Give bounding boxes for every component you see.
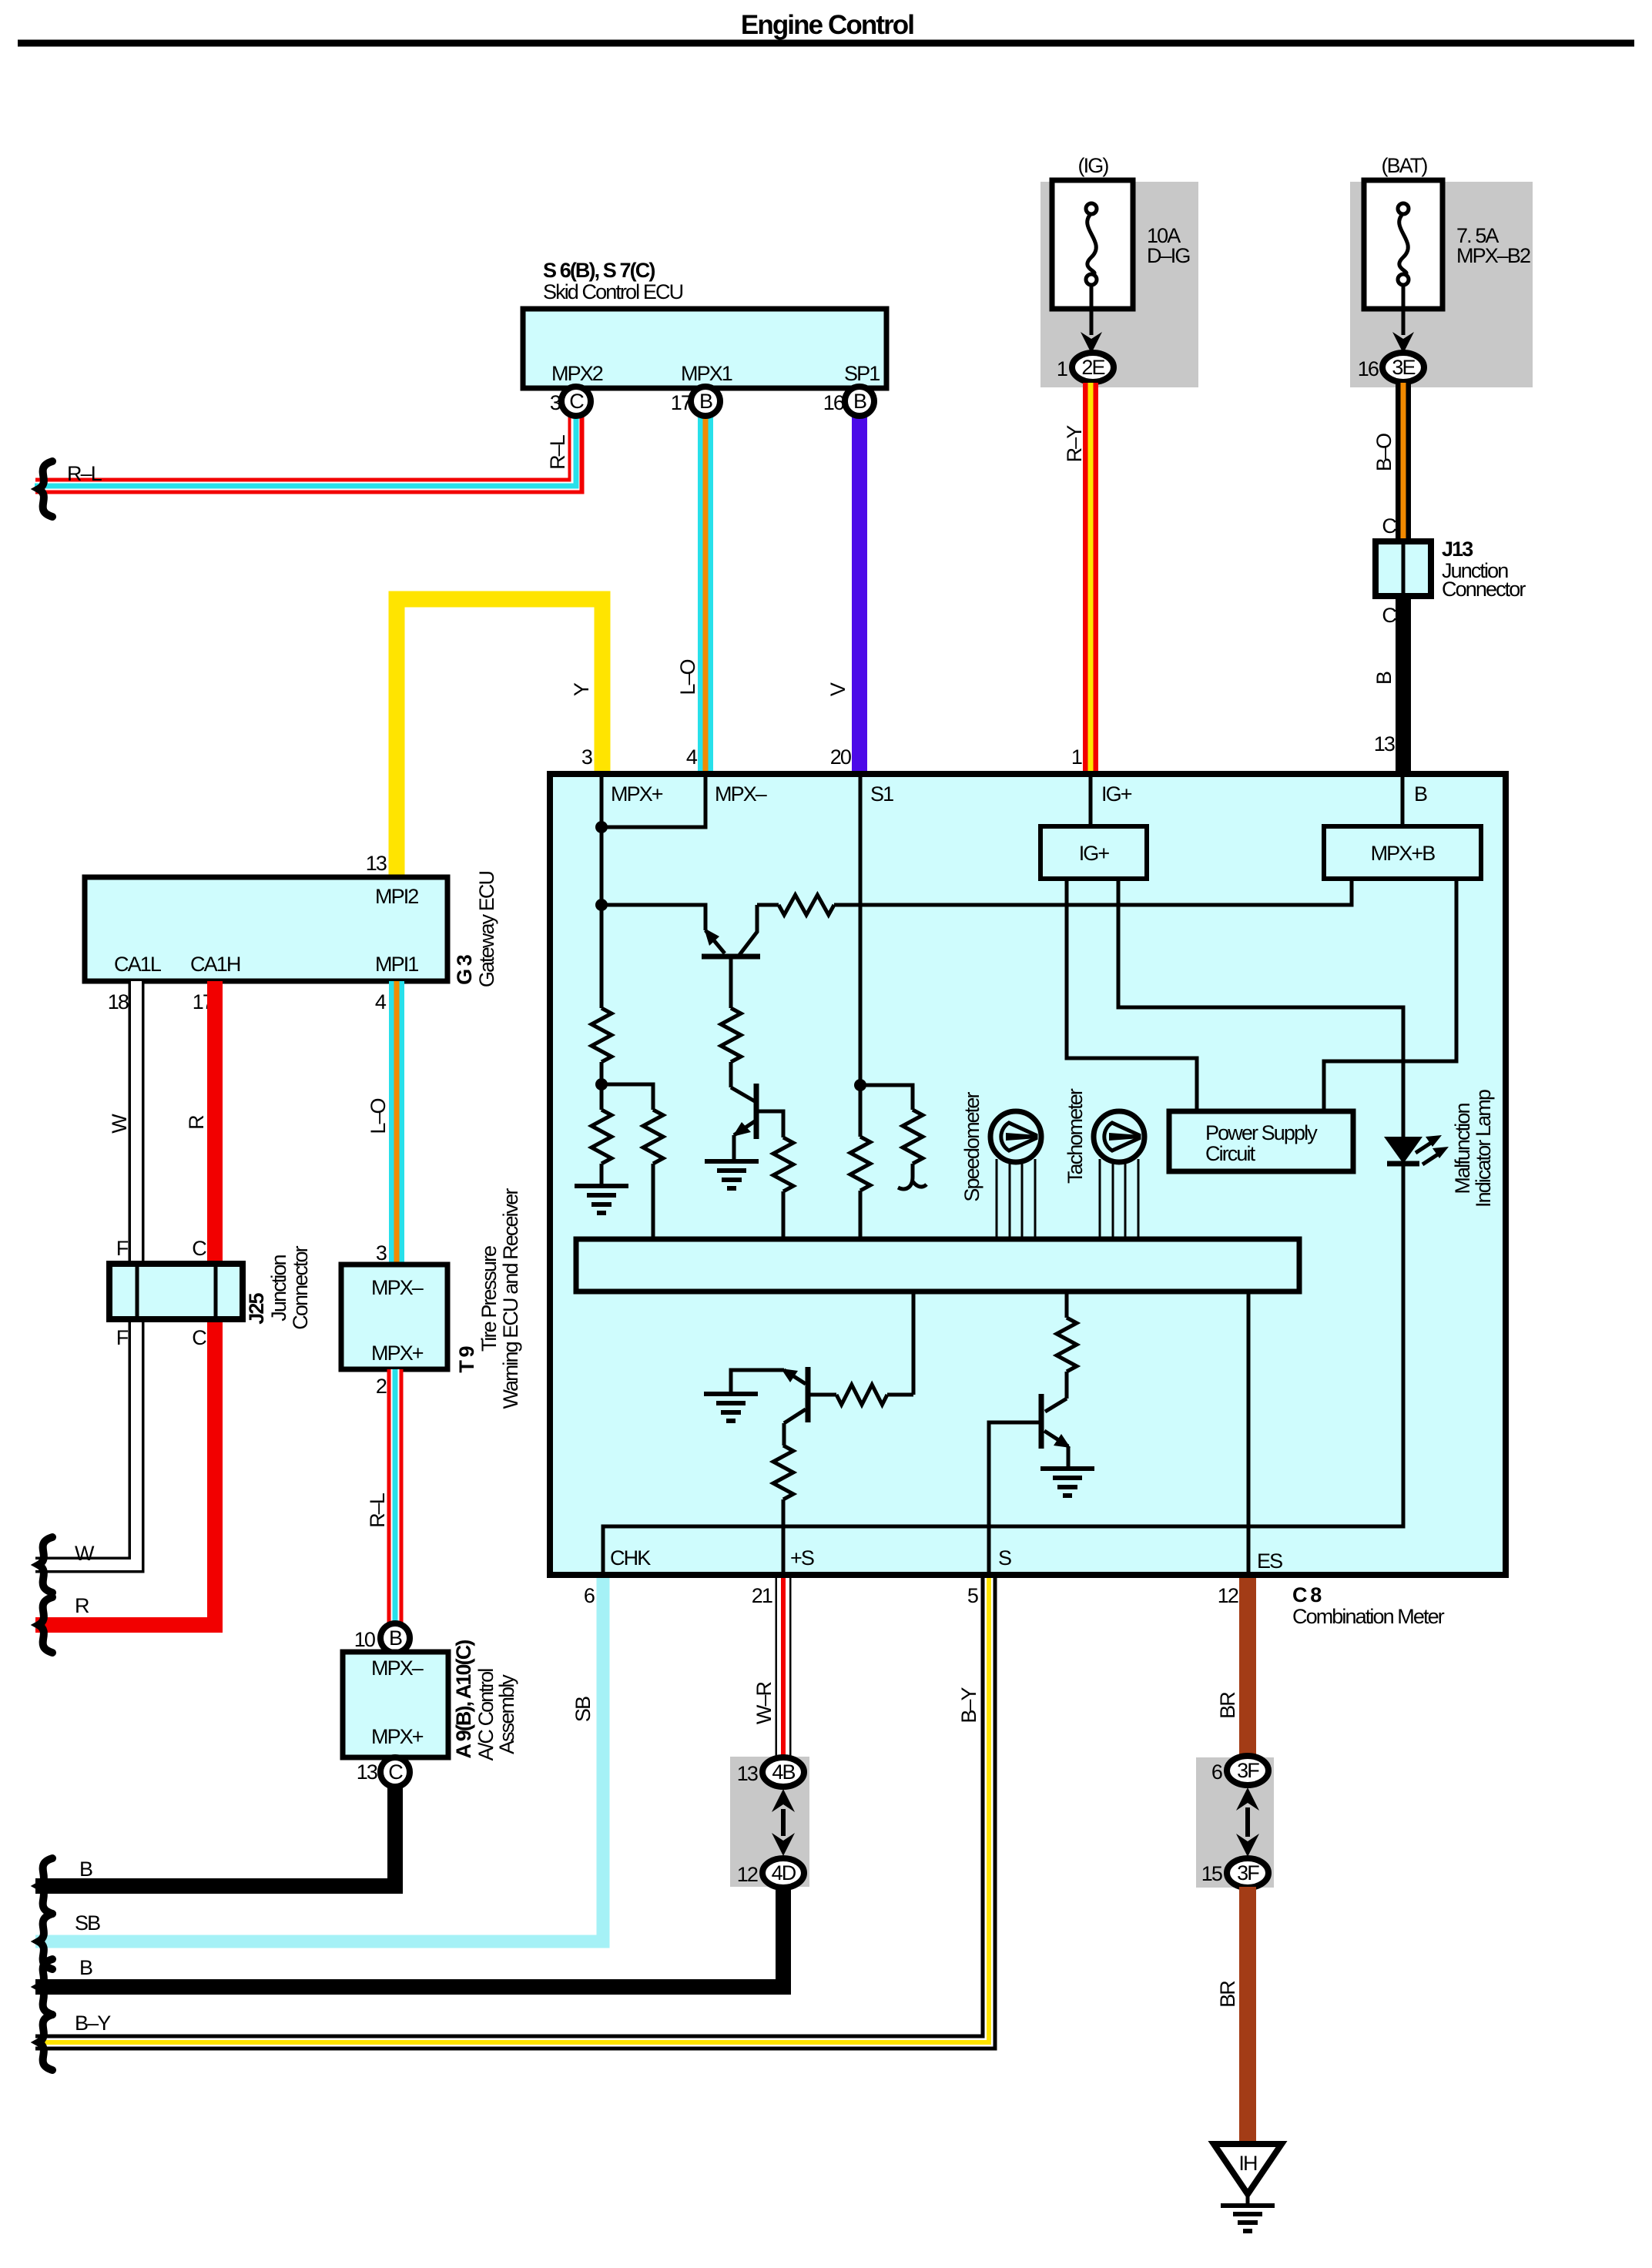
Power Supply Circuit box [1169,1111,1353,1171]
svg-text:R: R [185,1115,208,1130]
Q4 feed from bus [1065,1291,1069,1318]
wire BR from ES to 3F [1239,1578,1256,1759]
wire MPX- internal to junction [601,777,705,827]
oval 4D [762,1858,804,1888]
oval 3F bottom [1227,1858,1268,1888]
wire Y gateway MPI2 to pin3 [397,599,602,877]
svg-text:Junction: Junction [267,1255,290,1321]
header rule [18,40,1634,47]
svg-text:15: 15 [1201,1862,1222,1885]
hook terminator under R8 [898,1164,927,1189]
double arrow 3F-3F [1245,1807,1250,1837]
terminal circle B pin17 [691,387,720,416]
svg-text:C: C [1382,604,1396,627]
ground G1 [575,1184,628,1188]
resistor R4 collector line [757,903,779,907]
svg-text:R: R [75,1594,89,1617]
ground G4 [1040,1466,1094,1471]
svg-text:13: 13 [737,1762,758,1785]
svg-text:R–L: R–L [67,462,102,485]
brace cut R-L [39,461,52,517]
node dot MPX+ lower [595,1078,608,1090]
transistor Q3 collector [784,1409,806,1423]
wire B-Y from S pin to cut [35,1578,989,2042]
svg-text:B: B [389,1626,402,1650]
svg-text:4D: 4D [772,1861,796,1884]
svg-text:B–Y: B–Y [75,2012,111,2035]
ground IH bars [1246,2194,1250,2206]
node dot MPX+ branch [595,899,608,911]
node dot MPX+/MPX- [595,821,608,833]
svg-text:T 9: T 9 [455,1345,478,1372]
svg-text:C: C [1382,514,1396,538]
svg-text:16: 16 [823,391,844,414]
svg-text:W: W [75,1542,95,1565]
svg-text:3: 3 [376,1241,387,1265]
arrow to connector 3E [1402,285,1406,335]
svg-text:Malfunction: Malfunction [1451,1104,1474,1194]
resistor R5 [721,1008,741,1062]
transistor Q4 base bar [1039,1394,1044,1449]
connector oval 2E [1072,353,1114,382]
svg-text:Skid Control ECU: Skid Control ECU [543,280,683,303]
svg-text:4B: 4B [772,1760,795,1784]
svg-text:21: 21 [752,1584,772,1607]
svg-text:Warning ECU and Receiver: Warning ECU and Receiver [499,1188,522,1409]
svg-text:L–O: L–O [676,659,699,695]
A/C Control Assembly box [343,1652,448,1757]
svg-text:IG+: IG+ [1101,782,1132,806]
Tire Pressure ECU box T9 [341,1265,447,1369]
svg-text:Y: Y [570,682,593,696]
wire S1 internal vertical [859,777,863,1137]
svg-text:3E: 3E [1392,356,1415,379]
svg-text:MPX–: MPX– [715,782,767,806]
fuse D-IG element [1087,213,1097,275]
svg-text:F: F [116,1326,129,1349]
wire to Q1 emitter [601,905,705,930]
svg-text:B: B [79,1956,92,1979]
wire IG+ left leg to power supply [1067,879,1197,1111]
IG+ internal wire [1089,777,1093,826]
svg-text:C: C [388,1760,403,1784]
svg-text:6: 6 [1211,1760,1222,1784]
node dot S1 [854,1079,866,1091]
transistor Q1 collector [739,905,757,955]
resistor R6 [773,1137,793,1191]
wire Q1 base down [729,958,733,1008]
svg-text:SP1: SP1 [844,362,880,385]
ground G3 [704,1392,758,1396]
svg-text:J25: J25 [245,1292,268,1324]
svg-text:R–L: R–L [366,1492,389,1528]
wire MPX+ internal vertical [600,777,604,1008]
transistor Q4 collector [1045,1399,1067,1412]
svg-text:S 6(B), S 7(C): S 6(B), S 7(C) [543,259,655,282]
svg-text:S1: S1 [870,782,893,806]
wire R-L from T9 to A/C assembly [387,1369,404,1623]
svg-text:20: 20 [830,745,851,769]
svg-text:A/C Control: A/C Control [474,1669,498,1761]
svg-text:3F: 3F [1237,1759,1259,1782]
fuse MPX-B2 element [1399,213,1409,275]
svg-text:2E: 2E [1081,356,1104,379]
svg-text:V: V [826,682,849,696]
svg-text:CHK: CHK [610,1546,651,1570]
wire B from A/C to cut [35,1787,395,1886]
svg-text:MPX–: MPX– [371,1657,424,1680]
svg-text:Assembly: Assembly [495,1674,518,1754]
resistor R8 [903,1110,923,1164]
transistor Q4 emitter [1044,1431,1068,1446]
svg-text:F: F [116,1237,129,1260]
transistor Q1 emitter [705,930,725,953]
fuse block MPX-B2 gray background [1350,182,1533,387]
svg-text:B: B [1372,672,1396,685]
oval 4B [762,1757,804,1787]
Gateway ECU box [85,877,447,981]
svg-text:SB: SB [571,1697,595,1722]
wire R-L from cut to MPX2 [35,416,576,486]
svg-text:6: 6 [584,1584,595,1607]
svg-text:3F: 3F [1237,1861,1259,1884]
svg-text:Power Supply: Power Supply [1205,1121,1318,1144]
svg-text:4: 4 [375,990,387,1013]
Skid Control ECU box [523,309,886,388]
terminal circle B pin10 [380,1623,410,1653]
svg-text:C: C [192,1237,206,1260]
svg-text:C: C [192,1326,206,1349]
svg-text:Engine Control: Engine Control [741,10,913,40]
LED arrows [1416,1140,1436,1153]
ground IH triangle [1214,2144,1282,2194]
resistor R3 to ground [600,1084,604,1110]
svg-text:4: 4 [686,745,698,769]
svg-text:D–IG: D–IG [1147,244,1189,267]
ground G2 [705,1159,759,1164]
svg-text:MPX–: MPX– [371,1276,424,1299]
wire B from J13 to pin13 [1396,596,1411,774]
svg-text:IG+: IG+ [1079,842,1110,865]
LED malfunction indicator lamp [1384,1137,1422,1164]
fuse MPX-B2 body [1364,180,1443,309]
svg-text:A 9(B), A10(C): A 9(B), A10(C) [452,1640,475,1759]
wire W-R from +S to 4B [776,1578,792,1759]
svg-text:R–L: R–L [546,434,569,470]
transistor Q2 emitter [734,1121,755,1135]
svg-text:MPX+: MPX+ [611,782,663,806]
resistor R2 branch to bus [601,1084,653,1110]
transistor Q1 base bar [702,954,760,960]
svg-text:B: B [1414,782,1427,806]
resistor R9 [887,1393,913,1397]
wire W from CA1L to cut [35,981,136,1565]
MPX+B sub box [1324,826,1481,879]
svg-text:CA1L: CA1L [114,953,162,976]
bus bar [576,1239,1299,1291]
wire SB from CHK to cut [35,1578,603,1941]
wire V SP1 to pin20 [852,416,867,774]
svg-text:(IG): (IG) [1078,154,1109,177]
speedometer gauge [990,1111,1041,1162]
svg-text:Tire Pressure: Tire Pressure [478,1246,501,1352]
svg-text:J13: J13 [1442,538,1473,561]
ES wire from bus to pin [1247,1291,1251,1575]
svg-text:3: 3 [581,745,592,769]
svg-text:Combination Meter: Combination Meter [1292,1605,1445,1628]
svg-text:B–O: B–O [1372,434,1396,471]
svg-text:ES: ES [1257,1549,1282,1573]
svg-text:MPX–B2: MPX–B2 [1456,244,1530,267]
transistor Q2 base lead to R6 [758,1111,783,1137]
svg-text:C: C [569,390,584,413]
svg-text:S: S [998,1546,1011,1570]
Q3 feed from bus [912,1291,916,1395]
oval 3F top [1227,1756,1268,1785]
LED wire down to CHK [603,1164,1403,1575]
svg-text:Connector: Connector [1442,578,1526,601]
terminal circle C pin13 [380,1757,410,1787]
svg-text:B–Y: B–Y [957,1687,980,1723]
svg-text:(BAT): (BAT) [1382,154,1428,177]
IG+ sub box [1040,826,1147,879]
svg-text:L–O: L–O [367,1098,390,1134]
transistor Q2 base bar [754,1084,759,1139]
svg-text:Circuit: Circuit [1205,1142,1256,1165]
svg-text:10: 10 [354,1628,375,1651]
svg-text:SB: SB [75,1911,100,1935]
wire to +S pin [782,1499,786,1575]
svg-text:MPI2: MPI2 [375,885,418,908]
wire R-Y from 2E to pin1 [1083,383,1098,774]
wire L-O MPX1 to pin4 [698,416,713,774]
svg-text:MPX2: MPX2 [551,362,603,385]
svg-text:B: B [853,390,866,413]
svg-text:1: 1 [1057,357,1067,380]
svg-text:W–R: W–R [752,1681,776,1724]
svg-text:16: 16 [1358,357,1379,380]
svg-text:R–Y: R–Y [1063,425,1086,463]
transistor Q3 emitter [784,1370,806,1384]
svg-text:5: 5 [967,1584,978,1607]
svg-text:CA1H: CA1H [190,953,240,976]
svg-text:Tachometer: Tachometer [1064,1088,1087,1184]
svg-text:Connector: Connector [289,1245,312,1329]
svg-text:1: 1 [1071,745,1082,769]
wire L-O from MPI1 to T9 [389,981,404,1265]
transistor Q2 collector [731,1087,755,1101]
B internal wire [1401,777,1405,826]
connector block 4B/4D gray [730,1757,809,1887]
svg-text:+S: +S [790,1546,814,1570]
connector oval 3E [1382,353,1424,382]
transistor Q3 base bar [806,1367,811,1422]
svg-text:MPX+B: MPX+B [1371,842,1436,865]
svg-text:MPX+: MPX+ [371,1725,424,1748]
connector block 3F gray [1196,1757,1274,1888]
svg-text:13: 13 [366,852,387,875]
svg-text:C 8: C 8 [1292,1583,1322,1606]
svg-text:13: 13 [357,1760,377,1784]
svg-text:BR: BR [1216,1692,1239,1719]
transistor Q4 base lead to S pin [989,1422,1040,1575]
fuse D-IG body [1052,180,1133,309]
junction connector J25 [109,1264,243,1319]
svg-text:IH: IH [1238,2152,1257,2175]
svg-text:18: 18 [108,990,129,1013]
wire R4 to MPX+B [834,879,1352,905]
wire BR from 3F to ground IH [1239,1887,1256,2146]
svg-text:13: 13 [1374,732,1395,755]
svg-text:B: B [79,1858,92,1881]
branch S1 to R8 [860,1085,913,1110]
Combination Meter box C8 [550,774,1506,1575]
svg-text:MPX+: MPX+ [371,1342,424,1365]
resistor R7 on S1 [850,1137,870,1191]
terminal circle C pin3 [561,387,591,416]
svg-text:Speedometer: Speedometer [960,1091,983,1201]
wire IG+ right leg to LED line [1118,879,1403,1137]
resistor R1 on MPX+ line [591,1008,612,1062]
terminal circle B pin16 [845,387,874,416]
wire R from CA1H to cut [35,981,215,1625]
svg-text:Indicator Lamp: Indicator Lamp [1472,1090,1495,1208]
wire MPX+B right leg to power supply [1324,879,1456,1111]
resistor R11 [1057,1318,1077,1372]
svg-text:G 3: G 3 [453,954,476,985]
svg-text:12: 12 [1218,1584,1238,1607]
svg-text:Gateway ECU: Gateway ECU [475,872,498,988]
double arrow 4B-4D [781,1809,786,1836]
svg-text:W: W [108,1114,131,1134]
svg-text:12: 12 [737,1863,758,1886]
wire B-O from 3E to J13 [1396,383,1411,543]
fuse block D-IG gray background [1040,182,1198,387]
tachometer gauge [1094,1111,1144,1162]
wire B from 4D to cut [35,1887,783,1987]
resistor R10 [773,1446,793,1499]
svg-text:2: 2 [376,1375,387,1398]
svg-text:MPI1: MPI1 [375,953,418,976]
svg-text:MPX1: MPX1 [681,362,732,385]
junction connector J13 [1376,541,1431,596]
arrow to connector 2E [1090,285,1094,335]
svg-text:BR: BR [1216,1981,1239,2008]
svg-text:B: B [699,390,712,413]
